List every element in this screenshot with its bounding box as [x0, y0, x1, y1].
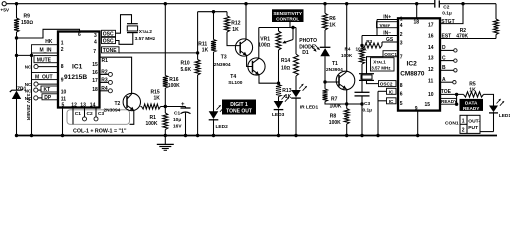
wire T1 collector to +5V [345, 2, 348, 5]
resistor R7 100K [323, 89, 328, 102]
svg-text:100K: 100K [341, 53, 353, 58]
svg-text:150Ω: 150Ω [21, 20, 33, 26]
svg-text:OSC: OSC [103, 32, 114, 38]
IC1 pin 2 M_IN [32, 45, 59, 53]
op-amp IC2 CM8870 body [398, 18, 440, 110]
IC2 pin 3 GS [382, 41, 398, 43]
resistor R3 100K [381, 42, 383, 46]
IC1 pin 3 OSC [102, 30, 116, 36]
svg-text:OSC1: OSC1 [384, 52, 397, 57]
svg-text:COL-1 + ROW-1 = "1": COL-1 + ROW-1 = "1" [73, 129, 127, 135]
svg-text:IN+: IN+ [383, 15, 391, 21]
wire IN- [361, 36, 363, 46]
svg-text:12: 12 [428, 67, 434, 73]
terminal +5V [2, 2, 6, 6]
resistor R4 100K [361, 46, 363, 49]
transistor T4 SL100 [248, 58, 265, 75]
resistor R5 1K [464, 92, 484, 97]
svg-text:2: 2 [462, 127, 465, 133]
svg-text:18: 18 [414, 20, 420, 26]
svg-text:3: 3 [400, 41, 403, 47]
svg-text:C2: C2 [87, 111, 93, 117]
IC2 pin 2 IN- [362, 35, 398, 37]
svg-text:IC: IC [389, 99, 394, 104]
svg-text:+5V: +5V [0, 8, 9, 14]
svg-text:+: + [181, 102, 185, 108]
svg-text:R4: R4 [345, 47, 351, 52]
svg-text:10: 10 [61, 90, 67, 96]
svg-text:M_IN: M_IN [40, 48, 52, 54]
svg-text:14: 14 [428, 45, 434, 51]
IC2 pin 1 IN+ [377, 19, 398, 21]
black label DATA READY [460, 99, 484, 111]
zener diode ZD1 3.3V [16, 38, 18, 90]
wire R1 pin15 to T2 collector [100, 57, 132, 94]
svg-text:1K: 1K [202, 47, 209, 53]
resistor R10 5.6K [197, 12, 199, 60]
svg-text:TONE: TONE [103, 48, 117, 54]
svg-text:13: 13 [80, 103, 86, 109]
svg-text:11: 11 [61, 96, 67, 102]
node C2 pin13 NC [84, 108, 86, 117]
svg-text:3.57 MHz: 3.57 MHz [371, 66, 391, 71]
group box COL-1 ROW-1 [67, 110, 130, 125]
IC2 pin 8 OSC2 [379, 81, 397, 87]
node C3 pin14 NC [95, 108, 97, 117]
resistor R9 150ohm [16, 4, 18, 18]
transistor T3 2N3904 [235, 39, 252, 56]
svg-text:14: 14 [90, 103, 96, 109]
LED1 [489, 106, 498, 113]
svg-text:6: 6 [400, 91, 403, 97]
op-amp IC1 91215B body [58, 32, 100, 108]
svg-text:15: 15 [425, 102, 431, 108]
svg-text:NC: NC [25, 96, 32, 101]
ground [164, 136, 166, 145]
svg-text:T1: T1 [332, 61, 338, 67]
svg-text:100K: 100K [168, 83, 180, 89]
IC1 pin 9 M_OUT NC [32, 73, 59, 80]
crystal XTAL2 3.57 MHz [116, 15, 132, 34]
svg-text:GS: GS [386, 37, 394, 43]
wire +5V top rail [7, 3, 435, 5]
resistor R14 10ohm [295, 28, 297, 55]
potentiometer VR1 100ohm [278, 28, 280, 32]
svg-text:SL100: SL100 [228, 80, 242, 86]
svg-text:0.1µ: 0.1µ [442, 11, 452, 17]
svg-text:DIGIT 1: DIGIT 1 [230, 102, 248, 108]
svg-text:D1: D1 [302, 50, 309, 56]
IC2 pin 15 READY [440, 98, 456, 104]
wire top node R10 R11 R12 [198, 11, 227, 13]
resistor R8 100K [346, 104, 348, 109]
svg-text:15: 15 [92, 62, 98, 68]
LED2 [209, 111, 219, 119]
svg-text:R3: R3 [366, 39, 372, 44]
connector CON1 OUTPUT [480, 131, 494, 133]
svg-text:1: 1 [462, 118, 465, 124]
wire IC1 pin5 to ground [62, 108, 64, 136]
wire IC pins to ground [377, 91, 379, 135]
svg-text:2N3904: 2N3904 [214, 62, 231, 68]
svg-text:1K: 1K [329, 23, 336, 29]
svg-text:10: 10 [428, 92, 434, 98]
svg-text:5.6K: 5.6K [181, 67, 192, 73]
svg-text:10Ω: 10Ω [281, 65, 291, 71]
svg-text:READY: READY [463, 106, 480, 111]
svg-text:PHOTO: PHOTO [299, 38, 317, 44]
wire IC2 pin 18 to +5V [416, 4, 418, 19]
svg-text:T3: T3 [221, 54, 227, 60]
svg-text:KT: KT [44, 87, 51, 93]
wire ground bottom rail [15, 135, 497, 137]
svg-text:MUTE: MUTE [37, 58, 52, 64]
svg-text:4: 4 [94, 39, 97, 45]
svg-text:1: 1 [400, 17, 403, 23]
resistor R6 1K [323, 2, 326, 5]
photo diode D1 [324, 30, 326, 47]
svg-text:11: 11 [428, 79, 434, 85]
svg-text:IN−: IN− [383, 31, 391, 37]
IC1 pin 4 OSC [102, 37, 116, 43]
svg-text:T4: T4 [230, 74, 236, 80]
IR LED1 [291, 90, 301, 97]
svg-text:2: 2 [61, 47, 64, 53]
svg-text:C1: C1 [75, 111, 81, 117]
svg-text:TONE OUT: TONE OUT [226, 109, 252, 115]
svg-text:3.57 MHz: 3.57 MHz [135, 36, 156, 42]
svg-text:XTAL1: XTAL1 [373, 60, 386, 65]
svg-text:3: 3 [94, 33, 97, 39]
resistor R13 1K [276, 85, 281, 97]
svg-text:IC: IC [389, 89, 394, 94]
resistor R16 100K [164, 2, 167, 5]
svg-text:R9: R9 [24, 14, 31, 20]
wire M_IN to zener rail and ground [17, 53, 32, 55]
svg-text:16: 16 [428, 34, 434, 40]
IC2 pin 4 Vref [377, 22, 398, 28]
svg-text:LED1: LED1 [499, 113, 510, 119]
svg-text:1K: 1K [232, 27, 239, 33]
svg-text:16V: 16V [173, 123, 182, 129]
wire TONE [119, 52, 198, 54]
svg-text:HK: HK [45, 39, 53, 45]
IC1 pin 10 KT NC [41, 86, 58, 92]
wire IC2 pin 9 to ground [417, 111, 419, 136]
VR1 wiper [292, 28, 294, 40]
svg-text:100K: 100K [330, 103, 342, 109]
svg-text:R1: R1 [102, 58, 109, 64]
svg-text:NC: NC [25, 65, 32, 70]
svg-text:2: 2 [400, 32, 403, 38]
svg-text:LED2: LED2 [216, 124, 229, 130]
svg-text:IC2: IC2 [407, 61, 418, 68]
svg-text:DP: DP [44, 95, 52, 101]
svg-text:100K: 100K [329, 120, 341, 126]
svg-text:DATA: DATA [465, 100, 478, 105]
svg-text:IC1: IC1 [72, 64, 83, 71]
svg-text:C3: C3 [364, 101, 370, 107]
svg-text:R10: R10 [181, 60, 190, 66]
capacitor C3 0.1uF [355, 91, 370, 93]
resistor R1 100K [163, 113, 168, 130]
svg-text:91215B: 91215B [64, 74, 87, 81]
IC2 pin 6 IC [387, 88, 397, 94]
black label DIGIT 1 TONE OUT [222, 100, 256, 115]
wire R9 to IC1 pin6 [17, 29, 80, 38]
svg-text:18: 18 [92, 87, 98, 93]
IC1 pin 11 DP NC [42, 94, 58, 100]
LED3 [274, 101, 284, 109]
svg-text:T2: T2 [115, 101, 121, 107]
wire T4 collector to VR1 R14 [259, 27, 296, 29]
svg-text:17: 17 [428, 23, 434, 29]
svg-text:7: 7 [93, 49, 96, 55]
transistor T1 2N3904 [336, 71, 355, 90]
IC1 pin 7 TONE [102, 47, 120, 53]
svg-text:NC: NC [25, 88, 32, 93]
svg-text:8: 8 [400, 83, 403, 89]
svg-text:6: 6 [78, 32, 81, 38]
svg-text:R16: R16 [169, 77, 178, 83]
svg-text:10µ: 10µ [173, 117, 181, 123]
svg-text:1K: 1K [469, 87, 476, 93]
svg-text:2N3094: 2N3094 [104, 107, 121, 113]
svg-text:1K: 1K [154, 95, 161, 101]
svg-text:READY: READY [441, 99, 457, 104]
svg-text:SENSITIVITY: SENSITIVITY [273, 11, 303, 16]
svg-text:C2: C2 [443, 5, 449, 11]
svg-text:VREF: VREF [380, 23, 391, 28]
svg-text:R6: R6 [329, 16, 336, 22]
IC2 pin 5 IC [387, 98, 397, 104]
svg-text:R8: R8 [330, 114, 337, 120]
svg-text:OSC2: OSC2 [380, 82, 393, 87]
capacitor C1 10uF 16V [165, 106, 185, 108]
crystal XTAL1 3.57 MHz [371, 58, 395, 71]
svg-text:8: 8 [61, 64, 64, 70]
svg-text:NC: NC [25, 82, 32, 87]
svg-text:R7: R7 [331, 96, 338, 102]
svg-text:CONTROL: CONTROL [276, 17, 299, 22]
svg-text:100K: 100K [146, 121, 158, 127]
svg-text:R12: R12 [231, 20, 240, 26]
svg-text:13: 13 [428, 55, 434, 61]
IC2 pin 7 OSC1 [383, 51, 398, 57]
svg-text:12: 12 [71, 103, 77, 109]
svg-text:16: 16 [92, 70, 98, 76]
capacitor C2 0.1uF [434, 0, 436, 8]
transistor T2 2N3094 [123, 93, 140, 110]
svg-text:OUT-: OUT- [468, 118, 480, 124]
svg-text:C1: C1 [174, 111, 180, 117]
svg-text:7: 7 [400, 55, 403, 61]
svg-text:M_OUT: M_OUT [35, 75, 53, 81]
resistor R15 1K [140, 106, 141, 108]
svg-text:5: 5 [400, 101, 403, 107]
resistor R11 1K [213, 12, 215, 40]
svg-text:OSC: OSC [103, 39, 114, 45]
svg-text:CM8870: CM8870 [400, 71, 425, 78]
svg-text:4: 4 [400, 23, 403, 29]
svg-text:PUT: PUT [468, 125, 478, 131]
svg-text:R14: R14 [281, 58, 290, 64]
svg-text:CON1: CON1 [445, 121, 459, 127]
black label SENSITIVITY CONTROL [272, 9, 304, 22]
svg-text:1: 1 [61, 40, 64, 46]
node C1 pin12 [72, 108, 74, 125]
IC1 pin 8 MUTE NC [34, 56, 58, 63]
svg-text:9: 9 [61, 78, 64, 84]
svg-text:100Ω: 100Ω [258, 42, 270, 48]
resistor R12 1K [226, 12, 228, 16]
svg-text:2N3904: 2N3904 [326, 67, 343, 73]
wire T2 emitter down [130, 110, 134, 124]
svg-text:17: 17 [92, 78, 98, 84]
svg-text:0.1µ: 0.1µ [363, 108, 373, 114]
svg-text:470K: 470K [456, 34, 468, 40]
svg-text:LED3: LED3 [272, 112, 285, 118]
svg-text:IR LED1: IR LED1 [300, 104, 319, 110]
